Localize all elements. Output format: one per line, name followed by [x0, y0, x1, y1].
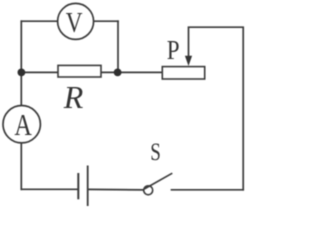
svg-text:V: V	[66, 8, 83, 39]
wire switch to bottom right corner	[172, 189, 244, 191]
switch S pivot circle	[144, 186, 153, 195]
battery negative plate (short)	[77, 173, 79, 199]
wire voltmeter right drop	[117, 21, 119, 72]
node junction right	[114, 69, 122, 77]
battery positive plate (long)	[87, 166, 89, 207]
svg-text:S: S	[150, 137, 161, 166]
node junction left	[18, 69, 26, 77]
ammeter A circle	[3, 106, 40, 143]
wire battery to switch	[88, 188, 144, 191]
rheostat P slider arrowhead	[185, 56, 192, 66]
wire P slider top run	[189, 27, 244, 190]
resistor R1 box	[58, 65, 101, 77]
wire main horizontal through R to P	[21, 71, 162, 73]
switch S lever	[144, 173, 172, 189]
wire top horizontal (voltmeter branch)	[21, 20, 118, 22]
voltmeter V circle	[58, 3, 94, 39]
svg-text:R: R	[63, 79, 84, 115]
svg-text:P: P	[167, 34, 180, 65]
rheostat P box	[162, 67, 204, 79]
wire bottom left to battery	[21, 188, 78, 190]
wire left vertical	[20, 21, 22, 189]
svg-text:A: A	[14, 108, 32, 142]
